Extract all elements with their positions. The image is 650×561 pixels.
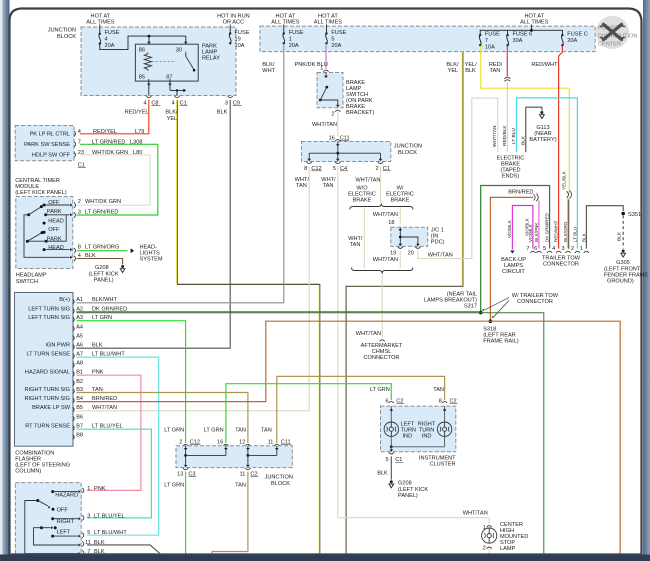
svg-text:PANEL): PANEL) — [94, 278, 114, 284]
splice symbol BRN/RED to BLK/PNK — [534, 194, 536, 200]
svg-text:20A: 20A — [331, 43, 341, 49]
svg-text:TAN: TAN — [490, 68, 501, 74]
svg-text:OR ACC: OR ACC — [223, 20, 244, 26]
headlamp switch dashed box — [16, 197, 73, 269]
svg-text:LT GRN/RED: LT GRN/RED — [92, 139, 125, 145]
svg-text:IND: IND — [422, 433, 432, 439]
hazard switch pin 11 BLK — [82, 541, 84, 546]
S318 splice dot — [489, 319, 493, 323]
svg-text:BLK: BLK — [465, 68, 476, 74]
brake lamp switch pin 1 — [323, 70, 328, 72]
svg-text:2: 2 — [483, 546, 486, 552]
wire LT GRN flasher A3 to junction block pin 2 C12 — [77, 321, 186, 443]
hazard switch pin 5 LT BLU/WHT — [82, 533, 84, 538]
svg-text:16: 16 — [329, 135, 335, 141]
svg-text:BLK: BLK — [617, 231, 623, 241]
svg-text:2: 2 — [571, 246, 574, 252]
svg-text:5: 5 — [87, 530, 90, 536]
svg-text:30A: 30A — [513, 38, 523, 44]
cluster pin 5 C1 — [389, 452, 394, 454]
connector C9 pin 3 — [228, 96, 233, 98]
J/C 1 internal bus — [399, 227, 401, 244]
svg-text:INSTRUMENT: INSTRUMENT — [419, 455, 456, 461]
svg-text:BLK: BLK — [377, 470, 388, 476]
svg-text:2: 2 — [331, 112, 334, 118]
svg-text:3: 3 — [78, 209, 81, 215]
svg-text:BLOCK: BLOCK — [271, 481, 290, 487]
svg-text:A4: A4 — [76, 324, 83, 330]
fuse 5 20A — [326, 25, 328, 34]
svg-text:3: 3 — [561, 246, 564, 252]
svg-text:SWITCH: SWITCH — [16, 279, 38, 285]
svg-text:1: 1 — [289, 37, 292, 43]
svg-text:CENTER: CENTER — [598, 42, 621, 48]
wire WHT/TAN to aftermarket CHMSL connector — [381, 274, 383, 338]
flasher pin B7 LT BLU/YEL — [73, 425, 75, 430]
svg-text:4: 4 — [172, 100, 175, 106]
relay switch blade 30-87 — [185, 52, 187, 57]
junction block 3 top pins — [183, 444, 188, 446]
junction block 2 pin 5 C4 — [335, 162, 340, 164]
svg-text:(LEFT KICK: (LEFT KICK — [398, 487, 428, 493]
svg-text:LT BLU/YEL: LT BLU/YEL — [94, 513, 125, 519]
svg-text:FUSE: FUSE — [235, 30, 250, 36]
svg-text:1: 1 — [320, 65, 323, 71]
svg-text:G305: G305 — [616, 260, 630, 266]
svg-text:BLK/WHT: BLK/WHT — [92, 297, 117, 303]
cluster internal ground bus — [390, 445, 393, 448]
wire LT GRN junction pin13 C3 down to rear lamps — [185, 472, 187, 555]
wire BLK hazard pin 11 — [87, 545, 161, 555]
central timer module dashed box — [15, 126, 74, 161]
svg-text:3: 3 — [225, 100, 228, 106]
svg-text:BLK: BLK — [92, 343, 103, 349]
relay pin 87 wire down, junction and branch arrow — [169, 79, 171, 90]
wire DK GRN/RED trailer pin5 to S317 — [481, 186, 550, 313]
svg-text:PK LP RL CTRL: PK LP RL CTRL — [30, 131, 70, 137]
G113 ground (near battery) — [540, 111, 543, 114]
svg-text:RIGHT TURN SIG: RIGHT TURN SIG — [25, 387, 70, 393]
hazard switch pin 3 LT BLU/YEL — [82, 515, 84, 520]
svg-text:6: 6 — [534, 246, 537, 252]
svg-text:HAZARD: HAZARD — [55, 493, 78, 499]
svg-text:BLK/: BLK/ — [262, 62, 275, 68]
wire BRN/RED flasher B4 through S318 to right rear — [77, 321, 621, 554]
svg-text:BRN/RED: BRN/RED — [508, 189, 533, 195]
wire RED/WHT fuseC to trailer pin 4 — [559, 46, 563, 249]
wire WHT/TAN w/o-electric-brake branch — [363, 208, 365, 269]
brake lamp switch pin 2 — [335, 110, 340, 112]
wire bus into relay pins 86 and 30 — [148, 36, 150, 42]
headlamp switch pole rail — [24, 215, 70, 257]
svg-text:S351: S351 — [628, 212, 641, 218]
J/C 1 pin 19 — [398, 247, 403, 249]
wire WHT/TAN C1-2 down to brake split brace — [380, 166, 382, 203]
svg-text:B5: B5 — [76, 405, 83, 411]
svg-text:30: 30 — [176, 47, 182, 53]
wire BLK/WHT fuse1 to flasher B(+) — [77, 45, 284, 303]
svg-text:8: 8 — [78, 245, 81, 251]
svg-text:19: 19 — [235, 37, 241, 43]
svg-text:4: 4 — [105, 37, 108, 43]
wire BLK trailer pin1 to S351 — [586, 206, 623, 249]
wire DK GRN/RED flasher A2 through S317 down to rear — [77, 311, 481, 313]
svg-text:PARK: PARK — [47, 209, 62, 215]
relay actuation dashed link — [152, 61, 177, 63]
svg-text:1: 1 — [580, 246, 583, 252]
left window bar — [0, 0, 3, 561]
svg-text:WHT/TAN: WHT/TAN — [428, 252, 453, 258]
wire TAN junction pin11 C2 down to rear lamps — [212, 472, 248, 555]
svg-text:RIGHT TURN SIG: RIGHT TURN SIG — [25, 396, 70, 402]
svg-text:FUSE 6: FUSE 6 — [513, 32, 533, 38]
svg-text:LT GRN: LT GRN — [164, 427, 184, 433]
brace rejoining branches — [352, 268, 413, 274]
svg-text:WHT/TAN: WHT/TAN — [92, 405, 117, 411]
svg-text:11: 11 — [268, 439, 274, 445]
svg-text:4: 4 — [78, 129, 81, 135]
svg-text:2: 2 — [375, 166, 378, 172]
svg-text:10A: 10A — [235, 43, 245, 49]
svg-text:TAN: TAN — [433, 387, 444, 393]
svg-text:8: 8 — [304, 166, 307, 172]
svg-text:LT GRN: LT GRN — [204, 427, 224, 433]
fuse 4 20A — [99, 25, 101, 34]
svg-text:CONNECTOR: CONNECTOR — [517, 299, 553, 305]
svg-text:WHT/TAN: WHT/TAN — [373, 212, 398, 218]
svg-text:4: 4 — [143, 100, 146, 106]
junction block 2 internal bus — [337, 142, 339, 154]
wire WHT/TAN from pin 19 down to rejoin brace — [399, 251, 401, 269]
S317 splice dot — [479, 311, 483, 315]
svg-text:LEFT: LEFT — [57, 529, 71, 535]
CTM pin 7 — [74, 142, 76, 147]
wire RED/TAN fuse6 down to splice — [506, 46, 508, 77]
center high mounted stop lamp pin 2 — [487, 547, 492, 549]
svg-text:L79: L79 — [135, 129, 144, 135]
flasher pin A2 DK GRN/RED — [73, 309, 75, 314]
svg-text:LEFT TURN SIG: LEFT TURN SIG — [28, 307, 70, 313]
junction block (top left) dashed box — [81, 27, 236, 96]
svg-text:BLOCK: BLOCK — [398, 150, 417, 156]
svg-text:WHT/TAN: WHT/TAN — [312, 122, 337, 128]
junction block 2 pin 8 C12 — [307, 162, 312, 164]
svg-text:L308: L308 — [130, 139, 142, 145]
svg-text:B(+): B(+) — [59, 297, 70, 303]
svg-text:8: 8 — [439, 398, 442, 404]
junction block 3 dashed box — [176, 446, 292, 468]
svg-text:1: 1 — [87, 486, 90, 492]
svg-text:BLOCK: BLOCK — [57, 34, 76, 40]
svg-text:BLK/ORG: BLK/ORG — [563, 221, 568, 242]
flasher pin A1 BLK/WHT — [73, 299, 75, 304]
left turn indicator bulb — [390, 406, 392, 422]
headlamp switch pin 8 — [74, 248, 76, 253]
svg-text:WHT/DK GRN: WHT/DK GRN — [85, 199, 121, 205]
svg-text:PARK SW SENSE: PARK SW SENSE — [24, 142, 70, 148]
svg-text:85: 85 — [139, 74, 145, 80]
svg-text:5: 5 — [385, 457, 388, 463]
wire fuse4 to relay bus — [100, 36, 186, 50]
G305 ground — [622, 250, 625, 253]
svg-text:TAN: TAN — [296, 183, 307, 189]
svg-text:7: 7 — [526, 246, 529, 252]
svg-text:TAN: TAN — [235, 483, 246, 489]
brake lamp switch contacts — [325, 73, 327, 77]
svg-text:G208: G208 — [95, 265, 109, 271]
svg-text:5: 5 — [331, 37, 334, 43]
svg-text:WHT/DK GRN: WHT/DK GRN — [92, 150, 128, 156]
wire YEL/BLK fuse7 to trailer splice — [481, 46, 570, 194]
svg-text:HAZARD SIGNAL: HAZARD SIGNAL — [25, 370, 70, 376]
svg-text:20A: 20A — [105, 43, 115, 49]
svg-text:BRAKE: BRAKE — [353, 198, 372, 204]
svg-text:HEADLAMP: HEADLAMP — [16, 273, 47, 279]
relay pin 85 wire down to connector C8 — [148, 79, 150, 96]
svg-text:RED/WHT: RED/WHT — [554, 220, 559, 242]
hazard switch HAZARD contact — [51, 490, 54, 493]
svg-text:SYSTEM: SYSTEM — [140, 256, 163, 262]
flasher pin B2 — [73, 381, 75, 386]
svg-text:RED/YEL: RED/YEL — [125, 110, 149, 116]
svg-text:ENDS): ENDS) — [502, 174, 520, 180]
svg-text:5: 5 — [333, 166, 336, 172]
svg-text:16: 16 — [217, 439, 223, 445]
brace splitting WHT/TAN into W/O and W/ branches — [350, 204, 413, 210]
svg-text:TAN: TAN — [323, 183, 334, 189]
J/C 1 (IN PDC) dashed box — [391, 227, 428, 246]
svg-text:DK GRN/RED: DK GRN/RED — [545, 212, 550, 242]
svg-text:COLUMN): COLUMN) — [15, 469, 41, 475]
svg-text:JUNCTION: JUNCTION — [394, 144, 422, 150]
splice on RED/TAN wire — [504, 77, 510, 79]
wire BLK/ORG splice from YEL/BLK down to trailer pin3 — [567, 191, 572, 199]
svg-text:BLK/: BLK/ — [446, 62, 459, 68]
svg-text:LT GRN/ORG: LT GRN/ORG — [85, 245, 119, 251]
headlamp switch wiper arms — [29, 207, 42, 215]
wire LT GRN/ORG to headlights system — [77, 250, 128, 252]
svg-text:BATTERY): BATTERY) — [529, 137, 556, 143]
flasher pin B3 TAN — [73, 389, 75, 394]
fuse C 20A — [561, 34, 563, 36]
wire BLK headlamp switch to G208 — [77, 259, 123, 265]
POWER DISTRIBUTION CENTER watermark logo — [596, 16, 629, 49]
wire WHT/TAN from pin 20 to electric brake taped end — [418, 98, 498, 259]
flasher pin B8 — [73, 435, 75, 440]
svg-text:BLK: BLK — [581, 232, 586, 242]
CTM pin 4 — [74, 131, 76, 136]
flasher pin A8 — [73, 363, 75, 368]
wire LT BLU/WHT flasher A7 to hazard switch pin 5 — [77, 357, 159, 535]
svg-text:LT GRN/RED: LT GRN/RED — [85, 209, 118, 215]
svg-text:FUSE: FUSE — [289, 30, 304, 36]
svg-text:20A: 20A — [289, 43, 299, 49]
svg-text:TAN: TAN — [235, 427, 246, 433]
svg-text:4: 4 — [552, 246, 555, 252]
wire LT BLU from trailer pin2 to taped end — [517, 98, 578, 249]
svg-text:LT BLU: LT BLU — [572, 227, 577, 242]
svg-text:CIRCUIT: CIRCUIT — [502, 269, 525, 275]
junction block 3 bottom pins — [183, 468, 188, 470]
svg-text:A8: A8 — [76, 361, 83, 367]
bottom dark bar — [0, 555, 650, 561]
right window bar — [643, 0, 650, 561]
hazard switch left rail — [34, 528, 78, 545]
svg-text:HDLP SW OFF: HDLP SW OFF — [32, 152, 71, 158]
svg-text:IGN PWR: IGN PWR — [45, 343, 70, 349]
svg-text:BLK/PNK: BLK/PNK — [534, 222, 539, 242]
wire RED/BLK (below splice) to taped end — [506, 82, 508, 152]
svg-text:RED/YEL: RED/YEL — [93, 129, 117, 135]
svg-text:YEL: YEL — [167, 116, 178, 122]
svg-text:WHT/TAN: WHT/TAN — [463, 511, 488, 517]
svg-text:WHT/TAN: WHT/TAN — [373, 257, 398, 263]
wire TAN flasher B3 to junction block pin 12 — [77, 393, 248, 444]
svg-text:FUSE: FUSE — [485, 32, 500, 38]
wire BLK from C9 down to flasher IGN PWR — [77, 100, 231, 348]
power distribution center dashed box — [260, 26, 595, 51]
flasher pin A7 LT BLU/WHT — [73, 353, 75, 358]
right turn indicator bulb — [444, 406, 446, 422]
svg-text:B6: B6 — [76, 414, 83, 420]
hazard switch pin 1 PNK — [82, 488, 84, 493]
svg-text:A6: A6 — [76, 343, 83, 349]
svg-text:12: 12 — [239, 439, 245, 445]
svg-text:YEL/: YEL/ — [465, 62, 478, 68]
flasher pin B4 BRN/RED — [73, 398, 75, 403]
svg-text:5: 5 — [543, 246, 546, 252]
wire WHT/TAN brake switch to junction block C11 — [337, 112, 339, 137]
svg-text:20A: 20A — [567, 38, 577, 44]
wire BLK/YEL from PDC down to rear — [345, 51, 462, 554]
svg-text:OFF: OFF — [48, 227, 60, 233]
junction block 3 internal buses — [185, 446, 187, 456]
headlamp switch pin 3 — [74, 212, 76, 217]
wire LT GRN junction pin16 up and over to cluster pin 6 — [226, 384, 391, 443]
svg-text:86: 86 — [139, 47, 145, 53]
svg-text:GROUND): GROUND) — [607, 279, 634, 285]
svg-text:RIGHT: RIGHT — [57, 519, 75, 525]
cluster pin 8 C2 — [442, 401, 447, 403]
svg-text:S317: S317 — [464, 304, 477, 310]
svg-text:JUNCTION: JUNCTION — [265, 475, 293, 481]
svg-text:RT TURN SENSE: RT TURN SENSE — [25, 424, 70, 430]
svg-text:87: 87 — [166, 74, 172, 80]
svg-text:VIO/BLK: VIO/BLK — [528, 223, 533, 242]
center high mounted stop lamp bulb — [482, 528, 497, 543]
svg-text:B2: B2 — [76, 379, 83, 385]
svg-text:B8: B8 — [76, 433, 83, 439]
svg-text:FRAME RAIL): FRAME RAIL) — [483, 339, 519, 345]
flasher pin B5 WHT/TAN — [73, 407, 75, 412]
svg-text:WHT/TAN: WHT/TAN — [355, 178, 380, 184]
flasher pin A6 BLK — [73, 344, 75, 349]
right bus riser and bus line — [531, 25, 533, 31]
flasher pin A5 — [73, 335, 75, 340]
wire BLK/YEL from C1 pin 4 down to rear — [177, 99, 320, 554]
svg-text:19: 19 — [390, 250, 396, 256]
node on relay bus — [148, 35, 151, 38]
headlamp switch pin 4 — [74, 256, 76, 261]
svg-text:OFF: OFF — [57, 507, 69, 513]
fuse 19 10A — [229, 25, 231, 34]
svg-text:G208: G208 — [398, 481, 412, 487]
wire PNK/DK BLU fuse5 to brake lamp switch — [325, 45, 327, 69]
svg-text:L80: L80 — [133, 150, 142, 156]
svg-text:RED/WHT: RED/WHT — [531, 62, 558, 68]
svg-text:CLUSTER: CLUSTER — [429, 462, 455, 468]
park lamp relay box — [135, 44, 198, 81]
svg-text:LT GRN: LT GRN — [370, 387, 390, 393]
fuse 7 10A — [479, 34, 481, 36]
svg-text:2: 2 — [78, 199, 81, 205]
svg-text:PDC): PDC) — [431, 240, 445, 246]
flasher pin B1 PNK — [73, 371, 75, 376]
G208 ground (cluster) — [390, 480, 393, 483]
svg-text:20: 20 — [408, 250, 414, 256]
svg-text:(LEFT KICK: (LEFT KICK — [89, 271, 119, 277]
svg-text:WHT: WHT — [262, 68, 275, 74]
svg-text:TAN: TAN — [261, 427, 272, 433]
svg-text:BRACKET): BRACKET) — [346, 110, 374, 116]
svg-text:BRAKE: BRAKE — [391, 198, 410, 204]
svg-text:PANEL): PANEL) — [398, 493, 418, 499]
svg-text:RED/BLK: RED/BLK — [502, 125, 508, 146]
J/C 1 pin 20 — [415, 247, 420, 249]
svg-text:LT GRN: LT GRN — [164, 483, 184, 489]
svg-text:6: 6 — [385, 398, 388, 404]
fuse 6 30A — [506, 34, 508, 36]
fuse 1 20A — [283, 25, 285, 34]
hazard switch OFF contact — [52, 508, 55, 511]
wire LT BLU/YEL flasher B7 to hazard switch pin 3 — [77, 429, 152, 518]
wire TAN junction pin11 C11 up and over to cluster pin 8 — [277, 376, 445, 443]
wire WHT/TAN C4-5 down to CHMSL — [338, 166, 489, 523]
svg-text:WHT/: WHT/ — [321, 177, 336, 183]
svg-text:BRAKE LP SW: BRAKE LP SW — [32, 405, 71, 411]
instrument cluster dashed box — [381, 406, 456, 452]
svg-text:LT TURN SENSE: LT TURN SENSE — [26, 352, 70, 358]
svg-text:FUSE: FUSE — [331, 30, 346, 36]
wire WHT/TAN w/-electric-brake branch to J/C 1 pin 18 — [399, 208, 401, 225]
svg-text:BLK: BLK — [217, 110, 228, 116]
svg-text:YEL: YEL — [448, 68, 459, 74]
flasher pin A4 — [73, 326, 75, 331]
svg-text:CONNECTOR: CONNECTOR — [364, 355, 400, 361]
svg-text:2: 2 — [179, 439, 182, 445]
svg-text:18: 18 — [388, 220, 394, 226]
wire LT GRN/RED CTM pin7 to headlamp switch pin3 — [77, 144, 158, 215]
svg-text:ALL TIMES: ALL TIMES — [86, 20, 115, 26]
hazard switch LEFT contact — [51, 535, 54, 538]
wire BLK cluster to G208 — [390, 456, 392, 479]
svg-text:7: 7 — [485, 38, 488, 44]
svg-text:YEL/BLK: YEL/BLK — [562, 170, 567, 190]
center high mounted stop lamp pin 1 — [487, 526, 492, 528]
wire WHT/DK GRN CTM pin23 to headlamp switch pin2 — [77, 155, 151, 205]
junction block 2 pin 2 C1 — [378, 162, 383, 164]
wire PNK flasher B1 to hazard switch pin 1 — [77, 375, 141, 490]
hazard switch RIGHT contact — [51, 517, 54, 520]
svg-text:ALL TIMES: ALL TIMES — [314, 20, 343, 26]
wire BLK hazard pin 7 — [87, 554, 165, 557]
wire WHT/TAN C12-8 down to flasher BRAKE LP SW — [77, 166, 310, 411]
svg-text:ALL TIMES: ALL TIMES — [271, 20, 300, 26]
svg-text:RELAY: RELAY — [202, 55, 220, 61]
svg-text:ALL TIMES: ALL TIMES — [520, 20, 549, 26]
svg-text:PNK: PNK — [94, 486, 106, 492]
flasher pin B6 — [73, 416, 75, 421]
